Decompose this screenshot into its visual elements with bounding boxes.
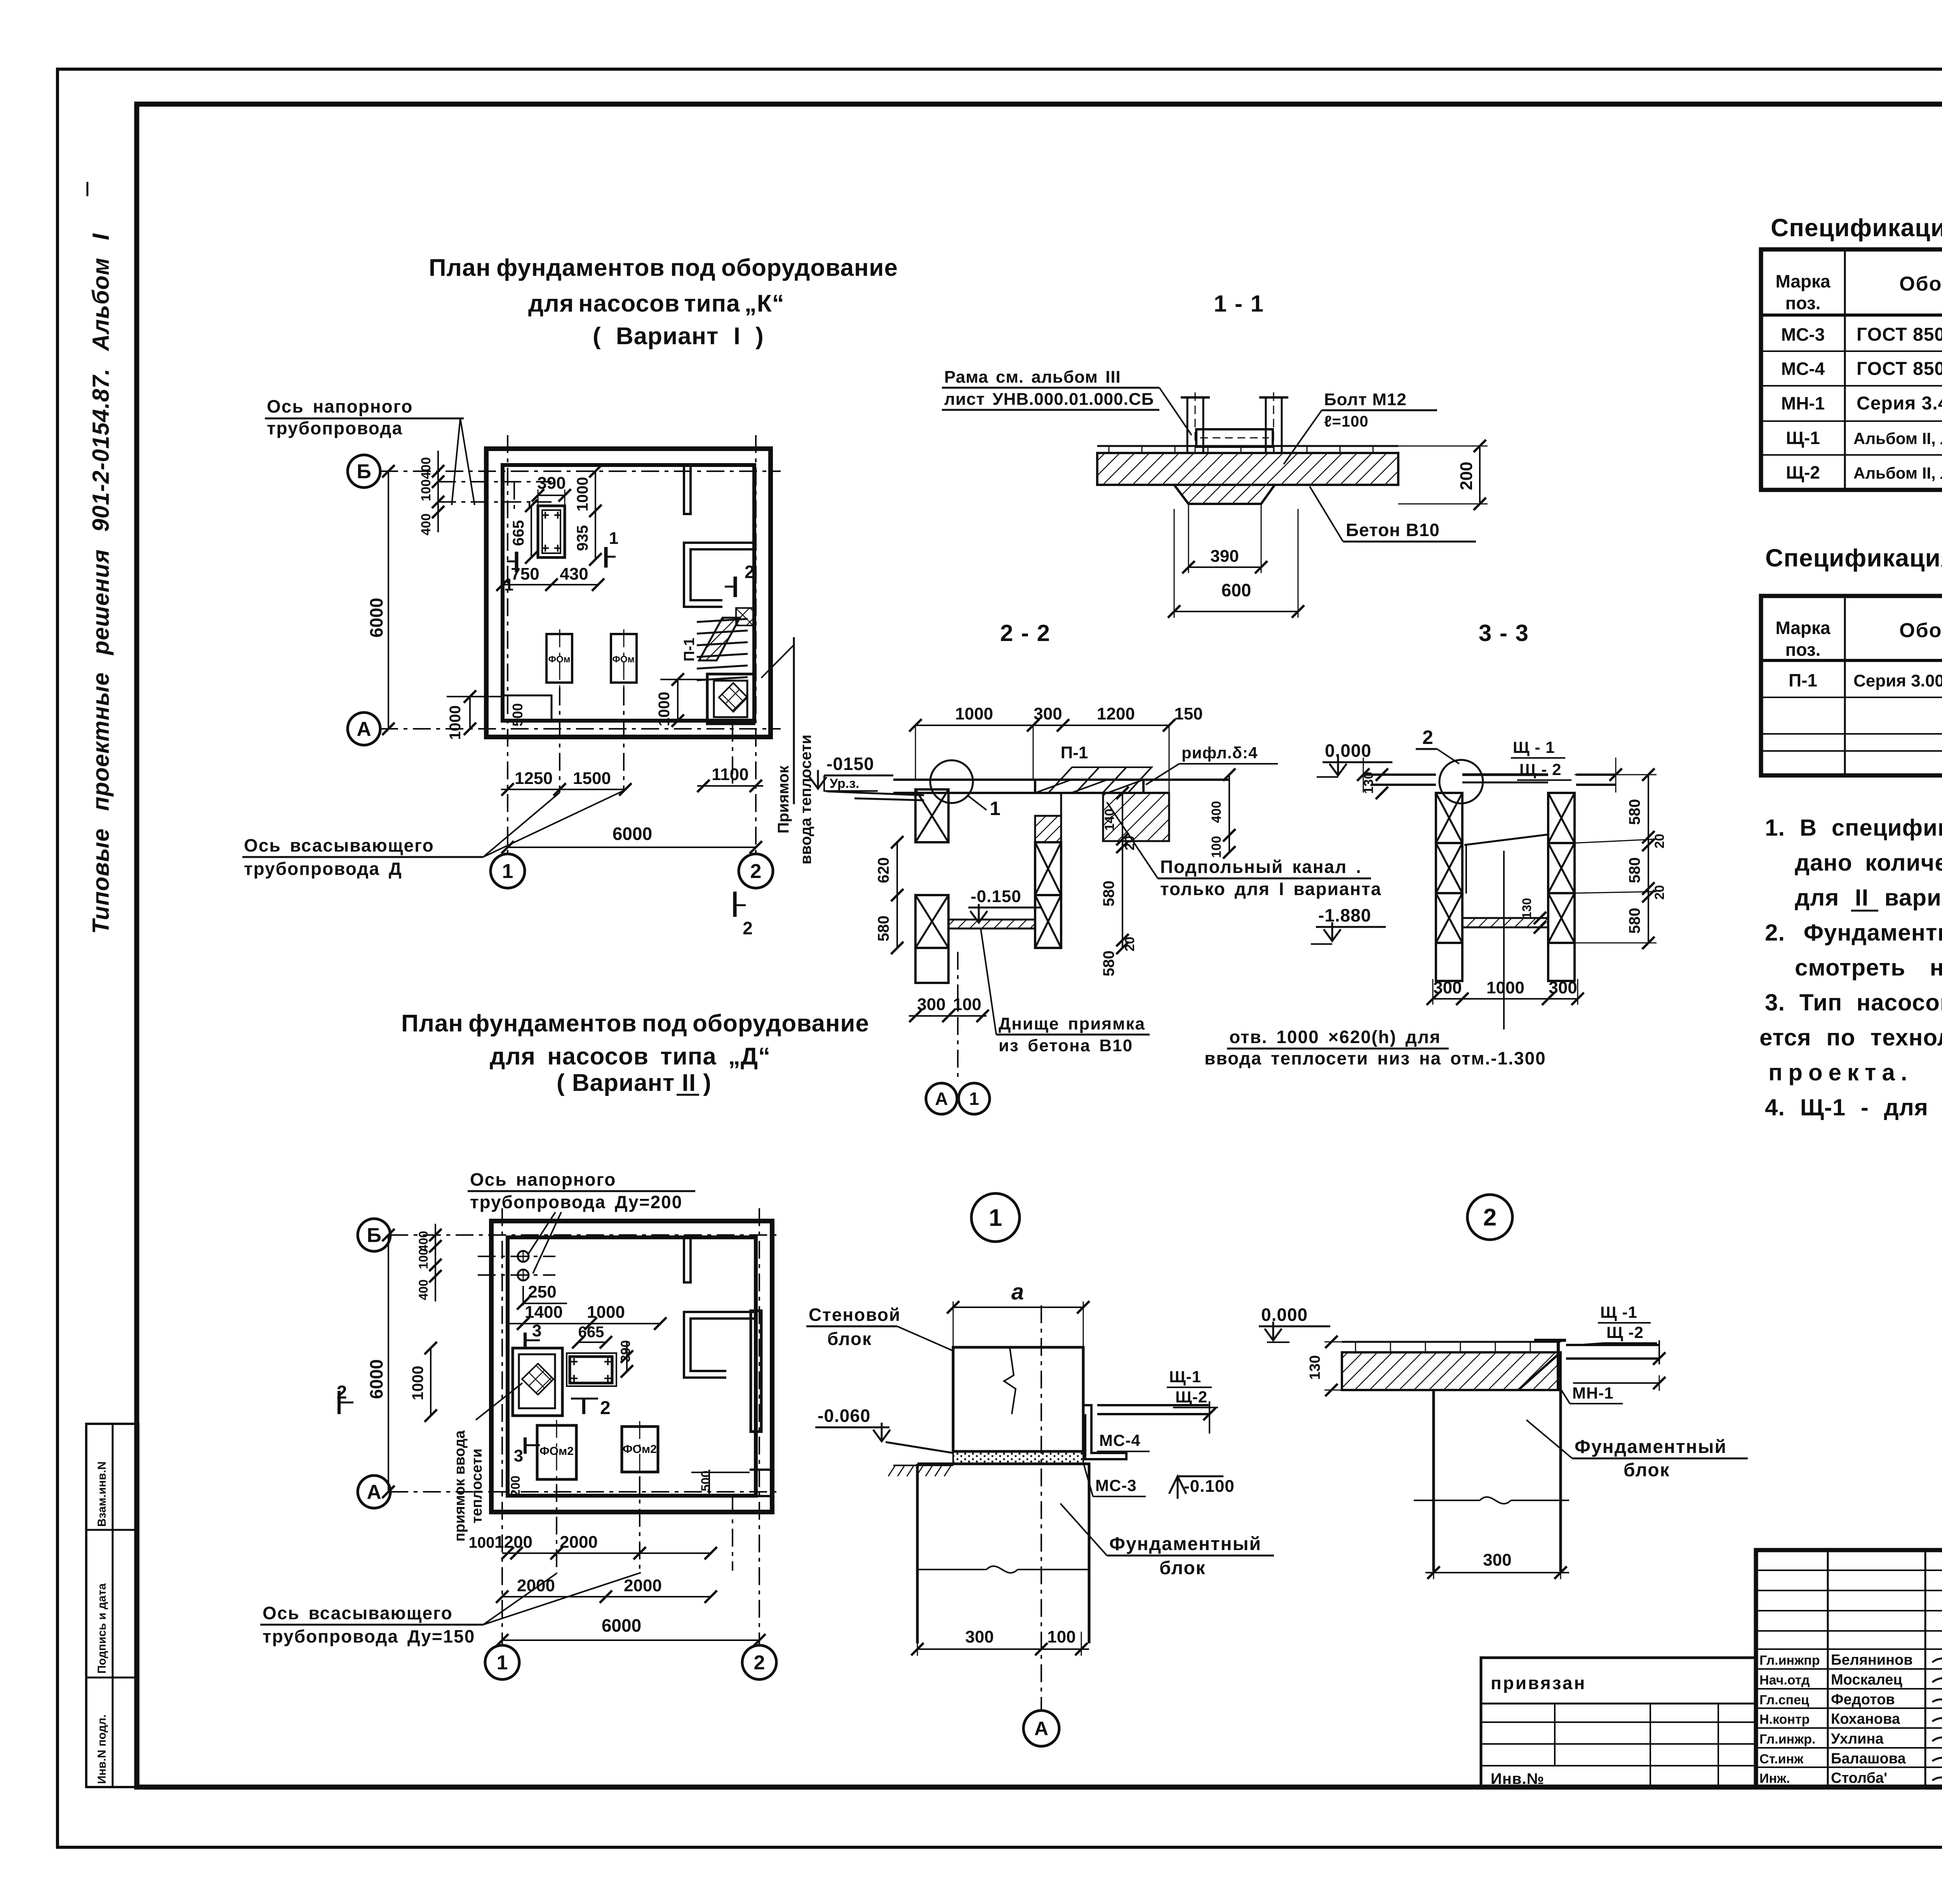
detail 1 bottom dim 300 100 [917,1648,1089,1650]
plan 1 dim 1000 935 right of pedestal [595,471,596,559]
svg-text:Спецификация металлических: Спецификация металлических изделий к схе… [1771,214,1942,242]
svg-text:Б: Б [357,460,371,483]
svg-text:Щ-1: Щ-1 [1786,428,1820,448]
plan 1 pit outer wall [707,674,754,724]
svg-text:ГОСТ 8509-72*: ГОСТ 8509-72* [1857,324,1942,345]
svg-text:250: 250 [528,1282,556,1301]
plan 2 inner wall [508,1237,756,1496]
svg-text:Коханова: Коханова [1831,1711,1900,1727]
plan 2 foundation FOm2 left [537,1425,576,1479]
svg-text:-1.880: -1.880 [1318,905,1371,925]
plan 1 axis line 1 [507,435,508,854]
svg-text:2: 2 [750,860,762,883]
svg-text:Столба': Столба' [1831,1770,1887,1786]
plan 1 axis circle B [348,455,380,488]
svg-text:Ст.инж: Ст.инж [1759,1752,1804,1766]
svg-text:2: 2 [754,1651,765,1674]
svg-text:Обозначение: Обозначение [1899,619,1942,642]
svg-text:трубопровода Д: трубопровода Д [244,859,402,879]
plan 1 section mark 2 below circle 2 [733,892,737,917]
title block outer [1756,1550,1942,1787]
plan 2 dim 1000 left [430,1348,432,1416]
svg-text:3. Тип насосов и вариант: 3. Тип насосов и вариант напорных линий … [1765,989,1942,1016]
section 2-2 floor left [893,779,1035,781]
plan 2 section mark 3 bottom [524,1437,527,1454]
svg-text:Спецификация сборных и м: Спецификация сборных и монолитных констр… [1765,544,1942,572]
svg-text:Взам.инв.N: Взам.инв.N [96,1462,108,1527]
svg-text:П-1: П-1 [1061,743,1088,762]
section 2-2 left wall blocks [915,789,948,842]
plan 1 axis line A [380,728,781,730]
plan 1 pit inner wall [714,681,747,717]
svg-text:580: 580 [1100,881,1117,907]
svg-text:отв. 1000 ×620(h) для: отв. 1000 ×620(h) для [1229,1027,1441,1047]
plan 2 partition room right [684,1312,756,1378]
svg-text:Нач.отд: Нач.отд [1759,1673,1810,1688]
plan 1 dim 1000 left bottom [469,697,471,729]
svg-text:3: 3 [532,1321,541,1340]
svg-text:Щ - 1: Щ - 1 [1513,738,1555,756]
plan 2 pit crosshatch [522,1364,553,1395]
detail 2 floor strip [1342,1341,1561,1343]
svg-text:-0.060: -0.060 [818,1406,870,1426]
svg-text:-0150: -0150 [827,754,874,774]
section 1-1 dim 390 [1189,566,1261,568]
svg-text:1: 1 [609,529,618,548]
svg-text:2: 2 [600,1398,611,1418]
svg-text:580: 580 [1626,908,1643,934]
plan 1 dim 6000 left [388,471,389,729]
plan 2 bottom dim 2000 2000 [502,1596,711,1597]
svg-text:МН-1: МН-1 [1781,393,1825,413]
detail 2 bottom dim 300 [1425,1572,1569,1573]
svg-text:1: 1 [502,860,513,883]
section 2-2 ground level line [827,791,924,795]
svg-text:А: А [367,1481,381,1503]
plan 2 bottom dim 6000 [502,1639,759,1641]
plan 1 dim 750 430 [503,584,598,585]
plan 1 landing checker [736,608,754,625]
svg-text:Подпись и дата: Подпись и дата [96,1583,108,1674]
detail 1 dim a [953,1306,1083,1308]
svg-text:2: 2 [745,562,755,582]
svg-text:МС-3: МС-3 [1095,1476,1137,1495]
plan 1 stair flight [697,619,748,622]
svg-text:А: А [357,718,371,740]
plan 2 axis circle 1 [485,1645,519,1679]
svg-text:20: 20 [1652,834,1667,848]
plan 1 outer wall [486,449,771,737]
svg-text:Щ-2: Щ-2 [1786,462,1820,483]
plan 2 section mark 2 outside left [338,1391,341,1414]
svg-text:трубопровода Ду=150: трубопровода Ду=150 [263,1626,475,1646]
detail 2 slab concrete [1342,1352,1561,1390]
svg-text:Щ-2: Щ-2 [1175,1388,1208,1406]
svg-text:лист УНВ.000.01.000.СБ: лист УНВ.000.01.000.СБ [944,390,1154,409]
detail 2 MN-1 angle [1534,1339,1566,1342]
svg-text:-0.100: -0.100 [1184,1477,1235,1496]
svg-text:430: 430 [560,564,588,584]
plan 1 foundation axis extensions [559,688,560,793]
svg-text:1500: 1500 [573,769,611,788]
detail 1 mortar bed [953,1451,1083,1464]
title block left grid [1827,1550,1829,1787]
svg-text:1250: 1250 [515,769,553,788]
svg-text:Балашова: Балашова [1831,1751,1906,1767]
section 1-1 slab concrete [1097,453,1398,485]
svg-text:580: 580 [1626,857,1643,883]
svg-text:580: 580 [1626,799,1643,825]
svg-text:Марка: Марка [1775,271,1831,291]
svg-text:200: 200 [508,1475,522,1496]
svg-text:теплосети: теплосети [469,1449,485,1524]
spec table 2 grid [1761,596,1942,775]
plan 2 section mark 3 top [524,1333,527,1349]
svg-text:20: 20 [1652,885,1667,900]
detail 2 cover slab right [1566,1344,1659,1346]
plan 1 pipe axis lines [438,481,552,483]
plan 1 pump pedestal [538,506,565,557]
svg-text:Гл.инжр.: Гл.инжр. [1759,1732,1815,1747]
plan 2 section mark 2 inside [571,1398,598,1400]
svg-text:1000: 1000 [447,706,464,740]
svg-text:665: 665 [578,1324,604,1341]
svg-text:1: 1 [989,1205,1002,1232]
svg-text:приямок ввода: приямок ввода [452,1430,468,1542]
section 3-3 pit interior opening line [1464,834,1548,845]
plan 2 axis line B [390,1234,781,1236]
plan 2 pedestal D [570,1357,612,1383]
plan 2 outer wall [491,1221,772,1512]
plan 1 dim 390 [538,495,565,496]
svg-text:Типовые проектные решения: Типовые проектные решения 901-2-0154.87.… [88,233,114,934]
svg-text:ФОм2: ФОм2 [539,1445,574,1458]
svg-text:200: 200 [1457,462,1476,490]
svg-text:Подпольный канал .: Подпольный канал . [1160,857,1362,877]
svg-text:100: 100 [416,1248,430,1269]
section 1-1 dim 600 [1174,611,1298,612]
detail 1 cover slab [1097,1404,1209,1406]
section 3-3 pit cover [1462,773,1548,776]
plan 1 inner wall [503,465,754,721]
svg-text:6000: 6000 [366,1359,386,1399]
section 2-2 right dim 400 100 [1229,775,1230,852]
svg-text:Днище приямка: Днище приямка [999,1014,1145,1033]
plan 1 foundation FOm right [611,634,637,683]
svg-text:0.000: 0.000 [1325,740,1371,761]
detail 1 axis circle A [1023,1711,1059,1746]
svg-text:Федотов: Федотов [1831,1691,1895,1708]
detail 1 axis line [1041,1305,1042,1709]
plan 1 dim 400 100 400 [437,451,439,532]
detail 2 callout circle [1467,1195,1512,1240]
plan 1 axis line B [380,470,781,472]
svg-text:Гл.инжпр: Гл.инжпр [1759,1653,1820,1668]
svg-text:130: 130 [1361,772,1376,794]
svg-text:ввода теплосети низ на отм.-: ввода теплосети низ на отм.-1.300 [1204,1048,1546,1068]
section 1-1 dim 200 [1479,446,1481,504]
svg-text:( Вариант I ): ( Вариант I ) [593,323,764,350]
svg-text:3 - 3: 3 - 3 [1479,620,1529,646]
svg-text:МС-3: МС-3 [1781,324,1825,345]
svg-text:1: 1 [990,798,1001,819]
svg-text:блок: блок [827,1329,872,1349]
svg-text:300: 300 [1034,704,1062,723]
svg-text:Обозначение: Обозначение [1899,273,1942,295]
plan 2 axis line A [390,1491,781,1493]
svg-text:блок: блок [1624,1460,1670,1481]
section 2-2 detail callout circle 1 [930,760,973,803]
plan 2 foundation FOm2 right [622,1427,658,1472]
svg-text:Альбом II, лист-КЖИ-23: Альбом II, лист-КЖИ-23 [1853,429,1942,448]
svg-text:ФОм: ФОм [548,654,571,665]
svg-text:300: 300 [917,995,945,1014]
plan 2 bottom wall notch [750,1470,772,1496]
svg-text:проекта.: проекта. [1768,1059,1913,1085]
section 2-2 mid dim chain [1122,793,1123,948]
svg-text:( Вариант II ): ( Вариант II ) [557,1070,712,1096]
spec table 1 grid [1761,249,1942,490]
plan 1 partition stub top [684,465,691,514]
plan 2 bottom dim 100 1200 2000 [502,1552,711,1554]
plan 2 axis line 1 [501,1208,503,1645]
svg-text:500: 500 [699,1470,713,1491]
plan 2 pit outer [513,1348,562,1416]
svg-text:150: 150 [1174,704,1202,723]
plan 1 pit crosshatch [719,683,747,712]
svg-text:ℓ=100: ℓ=100 [1324,413,1369,430]
svg-text:1: 1 [504,575,513,594]
svg-text:поз.: поз. [1785,293,1821,313]
svg-text:Ур.з.: Ур.з. [830,776,859,791]
svg-text:1000: 1000 [955,704,993,723]
section 1-1 slab thickening [1174,485,1275,504]
svg-text:140: 140 [1102,809,1117,831]
svg-text:Стеновой: Стеновой [809,1305,901,1325]
section 3-3 right dim chain 580 20 [1648,775,1649,943]
svg-text:935: 935 [574,525,591,551]
svg-text:130: 130 [1307,1355,1323,1380]
svg-text:1000: 1000 [574,477,591,512]
svg-text:2: 2 [1483,1204,1497,1231]
svg-text:поз.: поз. [1785,639,1821,660]
detail 1 mark -0.100 [1169,1476,1186,1494]
section 3-3 bottom dim 300 1000 300 [1433,998,1578,1000]
svg-text:2000: 2000 [560,1533,598,1552]
svg-text:400: 400 [416,1279,430,1300]
svg-text:только для I варианта: только для I варианта [1160,879,1382,899]
section 1-1 anchor bolt left [1187,397,1203,453]
section 3-3 floor left [1363,773,1436,776]
svg-text:2: 2 [337,1382,347,1403]
title block signatures [1932,1652,1942,1662]
svg-text:390: 390 [537,474,566,493]
svg-text:300: 300 [1483,1550,1511,1570]
svg-text:2 - 2: 2 - 2 [1000,620,1051,646]
plan 1 partition room right [684,543,754,607]
svg-text:Щ-1: Щ-1 [1169,1367,1201,1386]
svg-text:Инж.: Инж. [1759,1771,1790,1786]
svg-text:2000: 2000 [624,1576,662,1595]
svg-text:привязан: привязан [1491,1673,1586,1693]
plan 1 axis circle A [348,712,380,745]
svg-text:дано количество МС-3,4 для: дано количество МС-3,4 для I варианта, в… [1795,850,1942,876]
plan 1 bottom dim 6000 [508,847,756,848]
svg-text:500: 500 [510,703,526,726]
detail 1 wall block [953,1347,1083,1451]
detail 2 slab corner cut [1518,1352,1561,1390]
svg-text:400: 400 [419,457,433,479]
section 3-3 left wall blocks [1436,793,1462,843]
svg-text:400: 400 [419,514,433,536]
plan 1 dim 665 [531,506,532,557]
svg-text:Щ - 2: Щ - 2 [1519,760,1561,779]
svg-text:Гл.спец: Гл.спец [1759,1693,1809,1707]
plan 1 axis circle 1 [491,854,525,888]
section 2-2 left dim chain 620 580 [896,842,898,948]
svg-text:ГОСТ 8509-72*: ГОСТ 8509-72* [1857,359,1942,379]
plan 1 dim 1000 at pit [677,679,679,721]
svg-text:100: 100 [469,1534,495,1551]
svg-text:План фундаментов под оборуд: План фундаментов под оборудование [401,1010,869,1037]
svg-text:20: 20 [1122,937,1137,951]
svg-text:Н.контр: Н.контр [1759,1712,1810,1727]
svg-text:ФОм2: ФОм2 [623,1443,657,1456]
plan 2 axis circle A [358,1475,390,1508]
detail 1 ground line [886,1442,953,1453]
svg-text:Рама см. альбом III: Рама см. альбом III [944,368,1121,387]
detail 2 foundation block [1432,1390,1435,1571]
svg-text:300: 300 [1549,978,1577,997]
svg-text:620: 620 [875,857,892,883]
svg-text:Фундаментный: Фундаментный [1109,1534,1262,1554]
svg-text:А: А [1034,1718,1048,1740]
svg-text:2: 2 [743,918,753,938]
section 2-2 axis to circles [957,952,959,1081]
svg-text:6000: 6000 [613,824,652,844]
svg-text:390: 390 [618,1340,633,1362]
svg-text:1100: 1100 [712,765,748,784]
plan 2 pipe flanges [518,1251,529,1262]
detail 2 break line with S [1414,1497,1569,1503]
svg-text:580: 580 [875,916,892,942]
svg-text:Б: Б [367,1224,381,1247]
section 3-3 right wall blocks [1548,793,1575,843]
section 2-2 bottom dim 300 100 [909,1015,987,1017]
svg-text:600: 600 [1222,580,1251,600]
plan 1 section mark 2 at stairs [734,577,737,597]
svg-text:Марка: Марка [1775,618,1831,638]
section 3-3 floor right [1576,773,1616,776]
svg-text:МН-1: МН-1 [1572,1384,1614,1402]
plan 2 foundation axis extensions [556,1484,557,1573]
plan 2 dim 400 100 400 top [435,1224,436,1301]
svg-text:Ухлина: Ухлина [1831,1731,1884,1747]
svg-text:Фундаментный: Фундаментный [1575,1437,1727,1457]
plan 1 foundation FOm left [546,634,572,683]
section 2-2 P-1 slabs over pit [1035,780,1143,793]
svg-text:Альбом II, лист-КЖИ-23: Альбом II, лист-КЖИ-23 [1853,464,1942,482]
svg-text:Серия 3.400-6/76: Серия 3.400-6/76 [1857,393,1942,414]
svg-text:Серия 3.006-2,вып. II-2: Серия 3.006-2,вып. II-2 [1853,671,1942,690]
plan 2 axis circle B [358,1219,390,1251]
svg-text:Москалец: Москалец [1831,1672,1902,1688]
svg-text:100: 100 [1047,1627,1075,1646]
plan 2 axis circle 2 [742,1645,776,1679]
svg-text:6000: 6000 [602,1615,641,1636]
detail 1 wall break mark [1004,1348,1016,1414]
section 1-1 floor strip [1097,445,1398,447]
svg-text:3: 3 [514,1446,523,1465]
svg-text:для насосов типа „К“: для насосов типа „К“ [528,290,785,317]
svg-text:Щ -2: Щ -2 [1606,1323,1644,1341]
svg-text:1200: 1200 [494,1533,532,1552]
svg-text:Ось всасывающего: Ось всасывающего [244,835,434,855]
svg-text:-0.150: -0.150 [971,887,1021,906]
svg-text:из бетона В10: из бетона В10 [999,1036,1133,1055]
svg-text:МС-4: МС-4 [1099,1431,1141,1449]
plan 1 bottom dim 1250 1500 [501,789,625,790]
section 2-2 pit bottom slab [948,920,1035,928]
svg-text:для насосов типа „Д“: для насосов типа „Д“ [490,1043,771,1070]
svg-text:Белянинов: Белянинов [1831,1652,1913,1668]
svg-text:Инв.N подл.: Инв.N подл. [96,1714,108,1784]
svg-text:2. Фундаменты под оборудова: 2. Фундаменты под оборудование ФОм-1, ФО… [1765,920,1942,946]
svg-text:смотреть на листе КЖ-4.: смотреть на листе КЖ-4. [1795,955,1942,981]
svg-text:А: А [935,1089,948,1109]
svg-text:300: 300 [1433,978,1462,997]
svg-text:трубопровода: трубопровода [267,418,403,438]
svg-text:665: 665 [510,520,527,546]
plan 1 section mark 1-1 [515,552,519,572]
plan 2 partition stub top [684,1237,691,1282]
svg-text:Бетон В10: Бетон В10 [1346,520,1440,540]
detail 1 break line with S [917,1566,1089,1573]
plan 2 dim 665 [578,1341,606,1343]
svg-text:4. Щ-1 - для I варианта,: 4. Щ-1 - для I варианта, Щ-2 - для II ва… [1765,1094,1942,1120]
svg-text:100: 100 [419,479,433,502]
section 1-1 frame channel [1196,429,1273,447]
svg-text:Ось напорного: Ось напорного [267,396,413,416]
plan 2 axis line 2 [759,1208,760,1645]
svg-text:Приямок: Приямок [775,765,792,834]
svg-text:Болт М12: Болт М12 [1324,390,1407,409]
section 2-2 axis circle 1 [959,1083,990,1114]
svg-text:390: 390 [1210,547,1239,566]
section 2-2 floor right [1143,779,1229,781]
svg-text:1000: 1000 [587,1303,625,1322]
privyazan table [1481,1658,1756,1787]
detail 1 foundation block [917,1464,1089,1643]
svg-text:План фундаментов под оборуд: План фундаментов под оборудование [429,254,898,281]
svg-text:Ось напорного: Ось напорного [470,1169,616,1190]
plan 1 axis line 2 [755,435,757,854]
section 2-2 underfloor canal concrete [1103,793,1169,841]
section 2-2 center wall blocks [1035,816,1061,842]
svg-text:1. В спецификации металличес: 1. В спецификации металлических изделий … [1765,815,1942,841]
svg-text:1200: 1200 [1097,704,1135,723]
svg-text:для II варианта.: для II варианта. [1795,885,1942,911]
svg-text:100: 100 [1209,836,1224,858]
svg-text:ется по технологическим чер: ется по технологическим чертежам при при… [1759,1024,1942,1050]
svg-text:ввода теплосети: ввода теплосети [797,735,814,864]
svg-text:0.000: 0.000 [1261,1305,1308,1325]
svg-text:300: 300 [965,1627,994,1646]
section 2-2 top dim line [915,725,1169,726]
plan 1 stair hatch P-1 [699,618,740,660]
svg-text:1: 1 [969,1089,979,1109]
svg-text:П-1: П-1 [1789,670,1817,690]
